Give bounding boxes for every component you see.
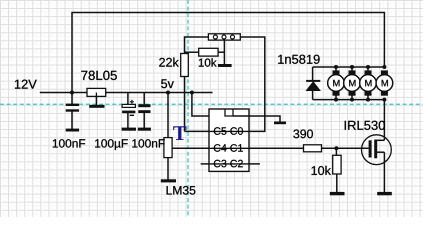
wire LM35 to ground [167, 158, 169, 180]
wire IC notch to ground [233, 116, 280, 122]
wire cap C1 top stub [71, 93, 73, 105]
capacitor C1 100nF [66, 104, 79, 112]
ground under 10k [330, 192, 345, 195]
wire 5v to LM35 [167, 93, 169, 138]
label 1n5819 [278, 55, 319, 64]
wire cap C3 top stub [143, 93, 145, 105]
wire 10k right [218, 51, 224, 53]
pin labels C5 C0 [214, 127, 243, 135]
wire connector pin3 to pin C0 [240, 37, 264, 131]
wire pin C3 stub [201, 163, 209, 165]
sensor LM35 body [164, 138, 172, 158]
wire motor M2 stubs [351, 67, 353, 100]
label 100nF output [132, 139, 164, 147]
transistor Q1 IRL530 [362, 135, 392, 165]
IC U1 [209, 109, 249, 171]
wire connector pin2 to ground [223, 40, 225, 64]
resistor R2 10k [199, 48, 218, 56]
ground under MOSFET [377, 192, 392, 195]
label 390 [293, 130, 313, 139]
connector J1 [208, 34, 240, 40]
wire 78L05 ground tap [95, 96, 97, 105]
wire diode cathode [312, 67, 314, 80]
label 22k [159, 58, 179, 67]
capacitor C2 100uF electrolytic [122, 100, 135, 116]
wire cap C3 bottom [143, 113, 145, 128]
wire cap C2 bottom [127, 113, 129, 128]
wire connector pin1 to 22k [185, 37, 209, 54]
label 10k pulldown [312, 166, 331, 175]
ground right of IC notch [274, 122, 286, 125]
resistor R1 22k [181, 54, 189, 77]
wire node T to pin C5 [185, 130, 210, 132]
motor M2 [344, 70, 361, 95]
regulator U2 78L05 [87, 88, 106, 96]
label 5v [161, 79, 174, 88]
wire gate node to 10k [335, 148, 337, 155]
wire MOSFET source stub [377, 151, 384, 153]
ground under C1 [66, 129, 79, 132]
wire 10k to ground [336, 174, 338, 192]
page guide horizontal dashed [0, 103, 423, 105]
wire motor M3 stubs [367, 67, 369, 100]
wire pin C2 stub [249, 163, 260, 165]
wire cap C1 bottom [71, 111, 73, 129]
pin labels C3 C2 [214, 160, 243, 168]
wire MOSFET drain stub [377, 139, 384, 141]
resistor R3 390 [304, 145, 322, 152]
wire 22k bottom to node T [184, 77, 186, 132]
label 100nF input [53, 139, 85, 147]
label 100uF [95, 139, 128, 150]
wire cap C2 top stub [127, 93, 129, 105]
wire LM35 out to pin C4 [172, 147, 209, 149]
motor M3 [360, 70, 377, 95]
wire diode anode [312, 91, 314, 100]
ground under 78L05 [89, 105, 104, 108]
wire +12V top loop [72, 13, 384, 93]
wire 12V rail [40, 92, 213, 94]
pin labels C4 C1 [214, 144, 243, 152]
ground under connector [218, 64, 232, 67]
label IRL530 [345, 121, 385, 130]
label 10k pullup [199, 58, 217, 67]
probe symbol T [173, 126, 186, 140]
label 12V [15, 80, 37, 89]
motor M4 [376, 70, 393, 95]
wire pin C1 to 390 [249, 147, 304, 149]
diode D1 1n5819 [306, 80, 320, 91]
motor M1 [328, 70, 345, 95]
ground under LM35 [161, 179, 176, 182]
label LM35 [167, 186, 196, 195]
label 78L05 [81, 71, 116, 80]
wire MOSFET source to ground [383, 152, 385, 192]
wire 5v rail to IC body [192, 93, 209, 117]
wire MOSFET drain [383, 100, 385, 141]
wire 390 to gate [322, 147, 369, 149]
page guide vertical dashed [187, 0, 189, 217]
wire motor top rail [313, 66, 385, 68]
wire motor bottom rail [313, 99, 385, 101]
wire motor M1 stubs [335, 67, 337, 100]
ground under C2 [122, 128, 136, 131]
ground under C3 [138, 128, 151, 131]
capacitor C3 100nF [138, 104, 150, 113]
resistor R4 10k gate pulldown [333, 155, 341, 174]
wire 10k left [185, 51, 199, 53]
